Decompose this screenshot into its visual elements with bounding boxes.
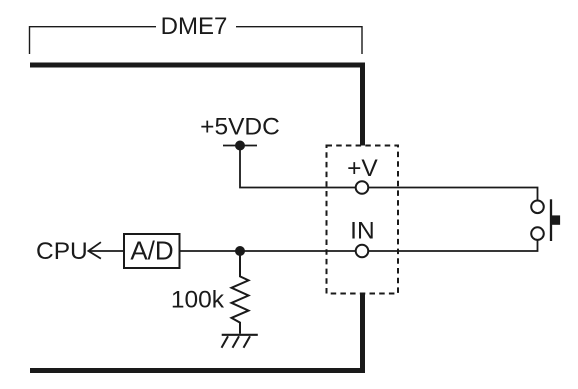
svg-text:100k: 100k bbox=[171, 287, 225, 314]
svg-text:A/D: A/D bbox=[130, 236, 173, 266]
svg-text:IN: IN bbox=[350, 218, 375, 245]
svg-text:CPU: CPU bbox=[36, 238, 88, 265]
svg-text:DME7: DME7 bbox=[161, 13, 228, 40]
svg-text:+5VDC: +5VDC bbox=[200, 113, 280, 140]
svg-text:+V: +V bbox=[347, 155, 378, 182]
